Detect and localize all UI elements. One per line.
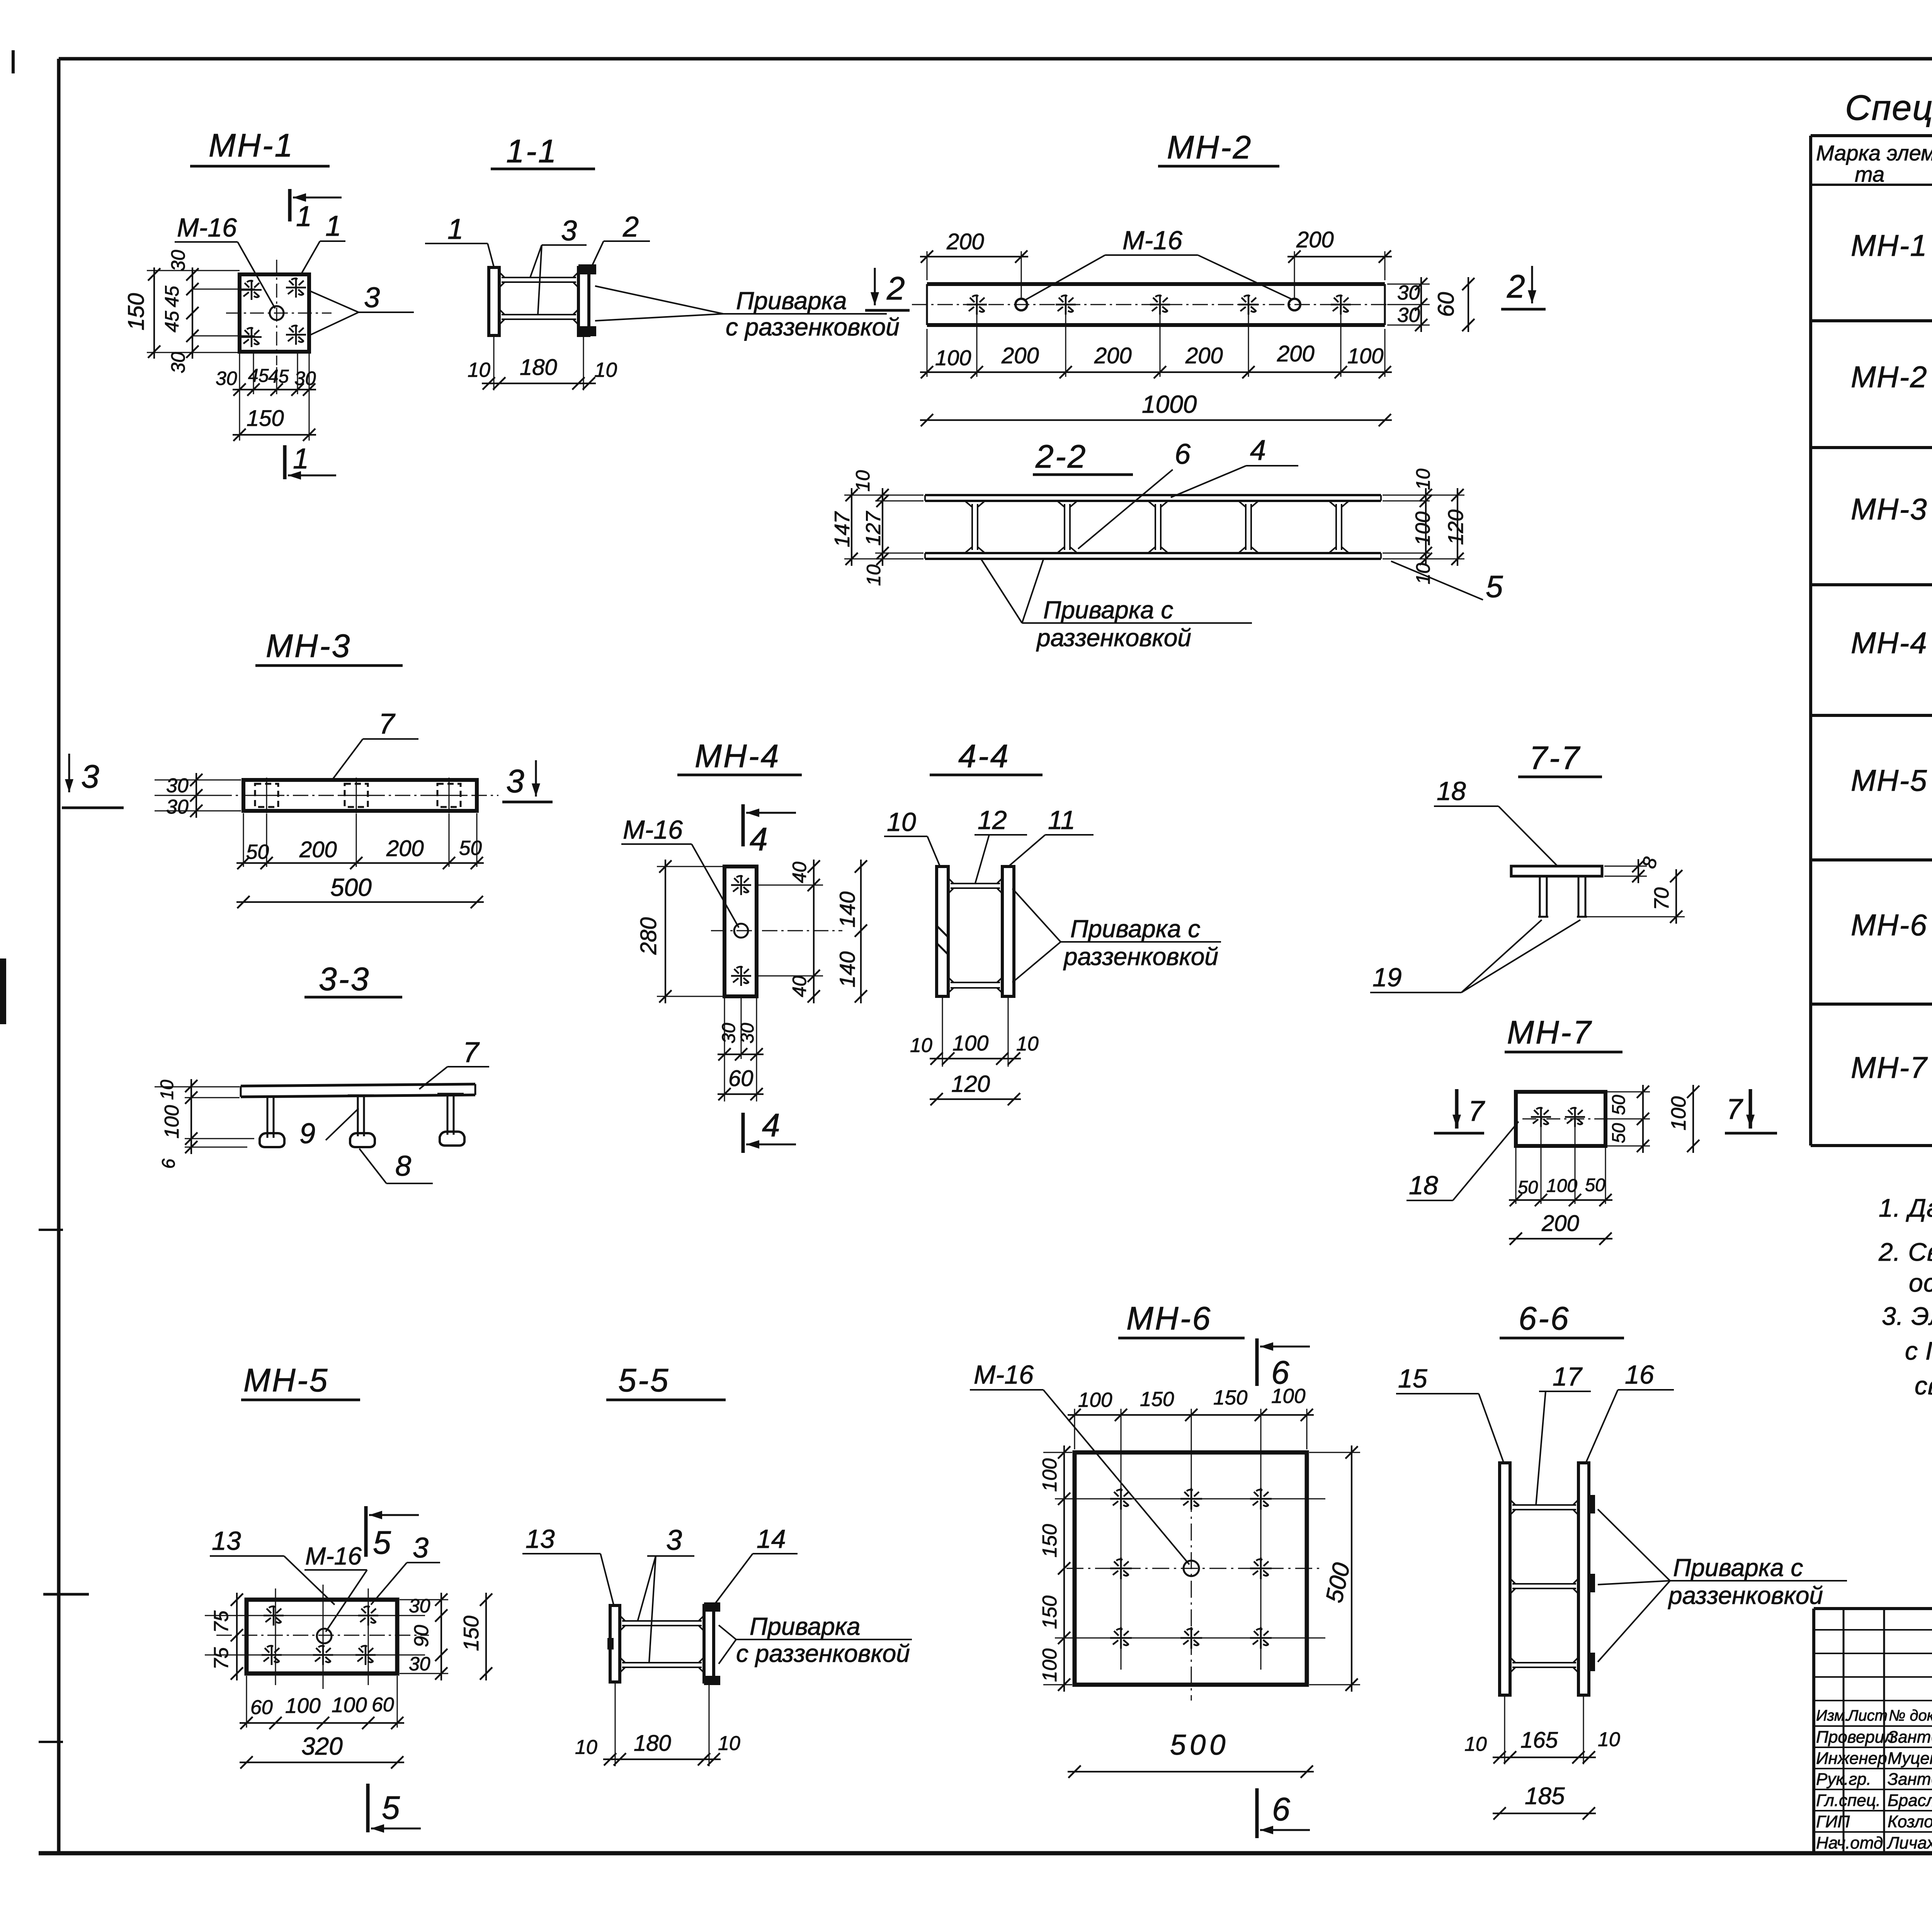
svg-text:10: 10 bbox=[863, 564, 884, 586]
plate pos.13 МН-5 plan 320x150 bbox=[247, 1600, 397, 1673]
svg-text:150: 150 bbox=[1039, 1524, 1061, 1558]
svg-text:4: 4 bbox=[1250, 434, 1266, 466]
svg-text:60: 60 bbox=[372, 1694, 394, 1716]
label Приварка с раззенковкой 2-2 bbox=[981, 560, 1252, 652]
svg-text:5-5: 5-5 bbox=[618, 1362, 670, 1398]
svg-text:30: 30 bbox=[166, 775, 189, 797]
svg-text:30: 30 bbox=[167, 250, 189, 271]
dimension 30 45 45 30 left МН-1 bbox=[161, 250, 199, 373]
svg-text:10: 10 bbox=[575, 1736, 597, 1759]
svg-text:МН-3: МН-3 bbox=[1851, 492, 1928, 526]
label Приварка с раззенковкой 5-5 bbox=[719, 1612, 912, 1667]
svg-text:150: 150 bbox=[459, 1616, 483, 1651]
studs pos.9 3-3 bbox=[257, 1094, 464, 1138]
svg-text:18: 18 bbox=[1409, 1171, 1438, 1200]
dimension 100 150 150 100 top МН-6 bbox=[1068, 1385, 1314, 1488]
svg-text:1. Данный лист комплектен: 1. Данный лист комплектен с листами КЖ-2… bbox=[1879, 1193, 1932, 1222]
svg-text:100: 100 bbox=[1078, 1389, 1112, 1411]
hole М16 МН-6 bbox=[1184, 1561, 1199, 1576]
leader 13 МН-5 bbox=[210, 1526, 335, 1605]
weld nubs 6-6 bbox=[1589, 1495, 1595, 1671]
svg-text:4: 4 bbox=[750, 821, 768, 857]
svg-text:10: 10 bbox=[1464, 1733, 1487, 1755]
svg-text:13: 13 bbox=[212, 1526, 241, 1556]
centerline МН-2 bbox=[912, 304, 1406, 305]
plate pos.15 МН-6 plan 500x500 bbox=[1075, 1452, 1307, 1685]
svg-text:10: 10 bbox=[852, 470, 874, 492]
svg-text:МН-4: МН-4 bbox=[695, 738, 780, 774]
svg-text:3: 3 bbox=[666, 1524, 682, 1556]
svg-text:100: 100 bbox=[285, 1694, 321, 1718]
weld nubs 5-5 bbox=[607, 1602, 720, 1685]
section title 7-7 bbox=[1518, 740, 1602, 777]
dimension 140 140 right МН-4 bbox=[835, 860, 867, 1003]
svg-text:200: 200 bbox=[1277, 341, 1315, 366]
svg-text:320: 320 bbox=[301, 1732, 343, 1760]
svg-text:1: 1 bbox=[296, 200, 312, 232]
svg-text:10: 10 bbox=[468, 359, 490, 381]
svg-text:100: 100 bbox=[161, 1105, 183, 1139]
leader 7 3-3 bbox=[419, 1036, 489, 1089]
studs pos.6 2-2 bbox=[963, 501, 1350, 553]
svg-text:1: 1 bbox=[293, 443, 309, 475]
plate pos.10 side 4-4 bbox=[937, 867, 948, 996]
weld marks МН-2 bbox=[967, 295, 1351, 315]
section mark 6 bottom МН-6 bbox=[1257, 1788, 1310, 1838]
section mark 2 right bbox=[1501, 266, 1546, 309]
svg-text:4-4: 4-4 bbox=[958, 738, 1010, 774]
svg-text:70: 70 bbox=[1650, 887, 1673, 910]
svg-text:50: 50 bbox=[1518, 1177, 1538, 1197]
dimension 30 30 left МН-3 bbox=[155, 773, 241, 818]
svg-text:100: 100 bbox=[1271, 1385, 1306, 1408]
svg-text:с раззенковкой: с раззенковкой bbox=[726, 313, 900, 341]
svg-text:10: 10 bbox=[910, 1034, 932, 1057]
svg-text:5: 5 bbox=[373, 1524, 391, 1561]
svg-text:Козловская: Козловская bbox=[1888, 1812, 1932, 1831]
svg-text:30: 30 bbox=[737, 1023, 758, 1044]
dimension 200 МН-7 bbox=[1509, 1211, 1612, 1245]
section mark 7 right МН-7 bbox=[1725, 1089, 1777, 1133]
leader 4 2-2 bbox=[1171, 434, 1298, 497]
hole М16 МН-5 bbox=[317, 1629, 332, 1643]
svg-text:50: 50 bbox=[1608, 1123, 1629, 1143]
detail title МН-1 bbox=[190, 127, 330, 166]
svg-text:12: 12 bbox=[978, 805, 1007, 835]
svg-text:МН-7: МН-7 bbox=[1851, 1050, 1928, 1084]
svg-text:30: 30 bbox=[216, 368, 237, 389]
svg-text:6: 6 bbox=[1272, 1791, 1290, 1827]
weld marks МН-4 bbox=[731, 875, 751, 986]
svg-text:с раззенковкой: с раззенковкой bbox=[736, 1639, 910, 1667]
section title 2-2 bbox=[1033, 438, 1133, 475]
svg-text:остальных стержней электро: остальных стержней электродами Э-50А. bbox=[1909, 1268, 1932, 1297]
svg-text:Личахчи: Личахчи bbox=[1886, 1833, 1932, 1852]
leader 14 5-5 bbox=[715, 1524, 798, 1604]
svg-text:Приварка с: Приварка с bbox=[1673, 1554, 1803, 1582]
label Приварка с раззенковкой 1-1 bbox=[595, 286, 900, 341]
svg-text:100: 100 bbox=[1546, 1176, 1577, 1196]
svg-text:165: 165 bbox=[1520, 1728, 1558, 1753]
plate МН-2 plan 1000x60 bbox=[927, 284, 1385, 325]
svg-text:Проверил: Проверил bbox=[1816, 1728, 1894, 1747]
leader 15 6-6 bbox=[1396, 1364, 1503, 1462]
anchor squares МН-3 bbox=[249, 778, 467, 813]
section title 3-3 bbox=[304, 961, 402, 997]
dimension 500 МН-3 bbox=[236, 873, 484, 908]
rod pos.3 top 1-1 bbox=[502, 277, 576, 278]
detail title МН-7 bbox=[1505, 1014, 1622, 1052]
section mark 1 top bbox=[290, 189, 342, 232]
svg-text:Рук.гр.: Рук.гр. bbox=[1816, 1770, 1871, 1789]
weld marks МН-6 3x3 bbox=[1110, 1488, 1272, 1649]
leader 19 7-7 bbox=[1370, 920, 1580, 993]
svg-text:50: 50 bbox=[246, 841, 269, 863]
svg-text:500: 500 bbox=[330, 873, 372, 901]
svg-text:МН-1: МН-1 bbox=[209, 127, 294, 163]
svg-text:45: 45 bbox=[161, 311, 183, 332]
leader 17 6-6 bbox=[1536, 1362, 1591, 1505]
bottom plate pos.5 2-2 bbox=[925, 553, 1381, 559]
dimension 70 right 7-7 bbox=[1587, 869, 1685, 924]
svg-text:9: 9 bbox=[299, 1117, 315, 1149]
dimension 200 top-left МН-2 bbox=[920, 229, 1028, 298]
dimension 75 75 left МН-5 bbox=[210, 1593, 243, 1680]
svg-text:1-1: 1-1 bbox=[506, 133, 558, 169]
dimension 120 4-4 bbox=[930, 1071, 1021, 1105]
dimension 60 bottom МН-4 bbox=[718, 1066, 764, 1100]
studs pos.19 7-7 bbox=[1538, 876, 1587, 917]
label М-16 with leader bbox=[175, 213, 275, 308]
leader 13 5-5 bbox=[522, 1524, 614, 1605]
detail title МН-5 bbox=[241, 1362, 360, 1400]
dimension 500 bottom МН-6 bbox=[1068, 1729, 1314, 1778]
svg-text:Гл.спец.: Гл.спец. bbox=[1816, 1791, 1881, 1810]
svg-text:200: 200 bbox=[1001, 343, 1039, 368]
title block names bbox=[1816, 1728, 1932, 1852]
svg-text:15: 15 bbox=[1398, 1364, 1427, 1393]
svg-text:60: 60 bbox=[1434, 292, 1459, 317]
title block left rows bbox=[1814, 1630, 1932, 1832]
svg-text:19: 19 bbox=[1372, 963, 1402, 992]
svg-text:40: 40 bbox=[789, 861, 810, 883]
dimension 150 right МН-5 bbox=[459, 1593, 492, 1680]
leader 1 1-1 bbox=[425, 213, 494, 267]
svg-text:18: 18 bbox=[1437, 776, 1466, 806]
leader 3 1-1 bbox=[530, 215, 587, 315]
svg-text:10: 10 bbox=[594, 359, 617, 381]
svg-text:3: 3 bbox=[413, 1532, 429, 1564]
section mark 3 left bbox=[62, 754, 124, 808]
svg-text:45: 45 bbox=[268, 366, 289, 387]
dimension 280 left МН-4 bbox=[636, 860, 723, 1003]
svg-text:раззенковкой: раззенковкой bbox=[1036, 624, 1191, 652]
svg-text:3: 3 bbox=[364, 281, 380, 313]
svg-text:100: 100 bbox=[1667, 1096, 1690, 1130]
leader 18 7-7 bbox=[1434, 776, 1557, 866]
svg-text:Браславский: Браславский bbox=[1888, 1791, 1932, 1810]
svg-text:М-16: М-16 bbox=[974, 1360, 1034, 1389]
plate pos.1 side 1-1 bbox=[489, 267, 499, 335]
dimension 8 right 7-7 bbox=[1604, 855, 1662, 883]
svg-text:8: 8 bbox=[395, 1150, 411, 1182]
svg-text:200: 200 bbox=[1094, 343, 1132, 368]
svg-text:МН-5: МН-5 bbox=[1851, 763, 1928, 797]
svg-text:200: 200 bbox=[946, 229, 984, 254]
svg-text:280: 280 bbox=[636, 917, 661, 955]
dimensions 10 100 6 left 3-3 bbox=[155, 1079, 254, 1169]
svg-text:сварные для железобетонных: сварные для железобетонных конструкций.” bbox=[1915, 1371, 1932, 1400]
svg-text:60: 60 bbox=[728, 1066, 753, 1091]
dimension 50 50 right МН-7 bbox=[1607, 1085, 1650, 1153]
label Приварка с раззенковкой 6-6 bbox=[1598, 1509, 1847, 1662]
dimension 60 right МН-2 bbox=[1434, 277, 1475, 332]
svg-text:40: 40 bbox=[789, 975, 810, 997]
svg-text:1000: 1000 bbox=[1142, 390, 1197, 418]
rod pos.12 bottom 4-4 bbox=[951, 982, 1000, 983]
leader 3 5-5 bbox=[638, 1524, 694, 1662]
plate pos.10 МН-4 plan 60x280 bbox=[724, 867, 757, 996]
weld nubs pos.2 bbox=[578, 264, 596, 274]
dimension 10 180 10 5-5 bbox=[575, 1682, 740, 1766]
svg-text:147: 147 bbox=[830, 511, 854, 547]
centerline МН-4 bbox=[711, 930, 842, 931]
svg-text:30: 30 bbox=[409, 1595, 430, 1617]
label М-16 МН-6 bbox=[970, 1360, 1189, 1565]
plate pos.13 side 5-5 bbox=[610, 1605, 620, 1682]
svg-text:М-16: М-16 bbox=[177, 213, 237, 242]
svg-text:75: 75 bbox=[210, 1610, 233, 1633]
spec table data bbox=[1851, 189, 1932, 1084]
svg-text:10: 10 bbox=[156, 1080, 177, 1100]
svg-text:50: 50 bbox=[1585, 1175, 1605, 1195]
rod pos.17 middle 6-6 bbox=[1512, 1583, 1576, 1585]
svg-text:90: 90 bbox=[410, 1625, 433, 1647]
svg-text:7-7: 7-7 bbox=[1529, 740, 1581, 776]
leader 7 МН-3 bbox=[332, 708, 418, 781]
notes text bbox=[1878, 1193, 1932, 1400]
centerlines МН-6 bbox=[1055, 1438, 1325, 1701]
svg-text:11: 11 bbox=[1048, 805, 1075, 835]
dimension 320 МН-5 bbox=[240, 1732, 404, 1769]
svg-text:100: 100 bbox=[1039, 1648, 1061, 1682]
dimension 10 165 10 6-6 bbox=[1464, 1695, 1620, 1764]
dimension 30 30 right МН-2 bbox=[1387, 277, 1430, 332]
svg-text:МН-7: МН-7 bbox=[1507, 1014, 1592, 1050]
detail title МН-3 bbox=[255, 628, 403, 666]
dimension 50 200 200 50 МН-3 bbox=[236, 813, 484, 869]
svg-text:150: 150 bbox=[124, 293, 149, 330]
svg-text:Приварка: Приварка bbox=[750, 1612, 861, 1640]
svg-text:10: 10 bbox=[1016, 1033, 1039, 1055]
svg-text:3. Электродуговая сварка вып: 3. Электродуговая сварка выполняется в с… bbox=[1882, 1302, 1932, 1330]
plate pos.1 МН-1 plan 150x150 bbox=[240, 274, 309, 352]
section mark 2 left bbox=[865, 268, 910, 310]
svg-text:7: 7 bbox=[1468, 1095, 1485, 1127]
centerline МН-3 bbox=[216, 795, 498, 796]
section title 6-6 bbox=[1500, 1300, 1624, 1338]
dimension 200 top-right МН-2 bbox=[1287, 227, 1392, 298]
plate pos.16 side 6-6 bbox=[1578, 1463, 1589, 1695]
svg-text:с ГОСТ 10922-75„ Арматура и: с ГОСТ 10922-75„ Арматура и закладные де… bbox=[1905, 1336, 1932, 1365]
svg-text:Зантберг: Зантберг bbox=[1888, 1770, 1932, 1789]
dimension 1000 МН-2 bbox=[920, 390, 1392, 426]
svg-text:127: 127 bbox=[862, 511, 885, 546]
svg-text:30: 30 bbox=[166, 796, 189, 818]
section mark 5 bottom МН-5 bbox=[368, 1784, 421, 1833]
plate pos.15 side 6-6 bbox=[1500, 1463, 1510, 1695]
rod pos.17 bottom 6-6 bbox=[1512, 1662, 1576, 1663]
dimension 500 right МН-6 bbox=[1309, 1445, 1360, 1692]
svg-text:Лист: Лист bbox=[1847, 1707, 1888, 1724]
svg-text:10: 10 bbox=[887, 807, 916, 837]
dimension 100 150 150 100 left МН-6 bbox=[1039, 1445, 1072, 1692]
leader 11 4-4 bbox=[1009, 805, 1094, 866]
svg-text:5: 5 bbox=[1486, 569, 1503, 604]
svg-text:7: 7 bbox=[379, 708, 396, 740]
svg-text:75: 75 bbox=[210, 1647, 233, 1670]
rod pos.3 top 5-5 bbox=[622, 1620, 702, 1622]
label Приварка с раззенковкой 4-4 bbox=[1012, 889, 1221, 982]
svg-text:3: 3 bbox=[561, 215, 577, 247]
svg-text:10: 10 bbox=[1412, 563, 1434, 584]
svg-text:3: 3 bbox=[506, 763, 524, 799]
dimension 10 180 10 1-1 bbox=[468, 337, 617, 390]
svg-text:150: 150 bbox=[247, 406, 284, 431]
spec table header text bbox=[1816, 136, 1932, 186]
svg-text:10: 10 bbox=[718, 1732, 740, 1755]
svg-text:Изм.: Изм. bbox=[1816, 1707, 1849, 1724]
svg-text:150: 150 bbox=[1213, 1386, 1248, 1409]
svg-text:ГИП: ГИП bbox=[1816, 1812, 1850, 1831]
svg-text:30: 30 bbox=[719, 1023, 739, 1044]
section mark 5 top МН-5 bbox=[366, 1506, 419, 1561]
rod pos.3 bottom 5-5 bbox=[622, 1662, 702, 1663]
svg-text:Муценко: Муценко bbox=[1888, 1749, 1932, 1768]
anchor hole M-16 МН-1 bbox=[270, 306, 284, 320]
svg-text:4: 4 bbox=[762, 1107, 780, 1143]
dimension 30 45 45 30 bottom МН-1 bbox=[216, 354, 316, 396]
svg-text:Зантберг: Зантберг bbox=[1888, 1728, 1932, 1747]
plate pos.2 side 1-1 bbox=[578, 267, 589, 335]
section title 4-4 bbox=[930, 738, 1043, 775]
svg-text:100: 100 bbox=[1347, 344, 1383, 368]
dimension 10 100 120 10 5 right 2-2 bbox=[1383, 468, 1503, 604]
dimension 185 6-6 bbox=[1493, 1783, 1596, 1820]
svg-text:50: 50 bbox=[459, 837, 482, 860]
leader 2 1-1 bbox=[592, 211, 650, 266]
svg-text:Нач.отд: Нач.отд bbox=[1816, 1833, 1883, 1852]
svg-text:МН-2: МН-2 bbox=[1851, 360, 1928, 394]
svg-text:140: 140 bbox=[835, 952, 859, 987]
section mark 1 bottom bbox=[285, 443, 336, 480]
leader 10 4-4 bbox=[884, 807, 940, 866]
dimension 10 100 10 4-4 bbox=[910, 998, 1039, 1067]
leader 6 2-2 bbox=[1078, 438, 1191, 549]
svg-text:7: 7 bbox=[463, 1036, 480, 1068]
rod pos.3 bottom 1-1 bbox=[502, 314, 576, 315]
centerlines МН-1 bbox=[193, 260, 332, 365]
svg-text:Марка элемен-: Марка элемен- bbox=[1816, 141, 1932, 165]
dimension 10 147 127 10 left 2-2 bbox=[830, 470, 923, 586]
svg-text:МН-6: МН-6 bbox=[1851, 908, 1928, 942]
svg-text:МН-6: МН-6 bbox=[1126, 1300, 1212, 1336]
svg-text:1: 1 bbox=[325, 210, 341, 242]
svg-text:120: 120 bbox=[951, 1071, 990, 1097]
section title 1-1 bbox=[491, 133, 595, 169]
section title 5-5 bbox=[606, 1362, 726, 1400]
svg-text:2: 2 bbox=[1507, 268, 1525, 305]
dimension 150 bottom МН-1 bbox=[233, 392, 316, 441]
dimension 60 100 100 60 МН-5 bbox=[240, 1676, 404, 1729]
detail title МН-4 bbox=[677, 738, 802, 775]
leader 1 to plate bbox=[301, 210, 345, 274]
svg-text:2. Сварку стержней встык пр: 2. Сварку стержней встык производить под… bbox=[1878, 1238, 1932, 1266]
svg-text:2: 2 bbox=[622, 211, 639, 243]
svg-text:100: 100 bbox=[935, 346, 971, 370]
leader 3 МН-5 bbox=[371, 1532, 440, 1605]
svg-text:180: 180 bbox=[634, 1731, 671, 1756]
dimension 30 30 bottom МН-4 bbox=[718, 998, 764, 1101]
section mark 3 right bbox=[502, 760, 553, 802]
svg-text:10: 10 bbox=[1598, 1728, 1620, 1751]
svg-text:М-16: М-16 bbox=[305, 1542, 362, 1570]
title block frame bbox=[1814, 1609, 1932, 1853]
plate pos.7 МН-3 plan 500x60 bbox=[243, 780, 477, 811]
svg-text:100: 100 bbox=[1412, 511, 1434, 546]
svg-text:Спецификация металла на одн: Спецификация металла на одну марку bbox=[1845, 88, 1932, 128]
svg-text:200: 200 bbox=[1541, 1211, 1579, 1236]
detail title МН-2 bbox=[1158, 129, 1279, 166]
bolt holes М-16 МН-2 bbox=[1015, 299, 1300, 310]
svg-text:3: 3 bbox=[81, 758, 99, 795]
svg-text:раззенковкой: раззенковкой bbox=[1063, 943, 1218, 970]
svg-text:М-16: М-16 bbox=[1122, 226, 1182, 255]
label М-16 МН-5 bbox=[304, 1542, 367, 1632]
svg-text:500: 500 bbox=[1170, 1729, 1229, 1761]
plate pos.7 side 3-3 bbox=[241, 1084, 475, 1097]
plate pos.11 side 4-4 bbox=[1002, 867, 1014, 996]
svg-text:60: 60 bbox=[250, 1696, 273, 1719]
leader 12 4-4 bbox=[975, 805, 1027, 883]
plate pos.18 side 7-7 bbox=[1511, 866, 1602, 876]
svg-text:100: 100 bbox=[952, 1031, 988, 1055]
svg-text:М-16: М-16 bbox=[623, 815, 683, 844]
hole М16 МН-4 bbox=[734, 924, 748, 938]
svg-text:2-2: 2-2 bbox=[1035, 438, 1087, 475]
svg-text:6: 6 bbox=[158, 1158, 179, 1169]
svg-text:200: 200 bbox=[1185, 343, 1223, 368]
svg-text:50: 50 bbox=[1608, 1095, 1629, 1115]
svg-text:200: 200 bbox=[1296, 227, 1334, 252]
svg-text:Приварка: Приварка bbox=[736, 287, 847, 315]
countersink marks on pos.10 bbox=[937, 926, 948, 955]
rod pos.17 top 6-6 bbox=[1512, 1504, 1576, 1506]
label М-16 МН-4 bbox=[621, 815, 739, 928]
spec table grid bbox=[1811, 136, 1932, 1146]
svg-text:30: 30 bbox=[1397, 281, 1420, 304]
rod pos.12 top 4-4 bbox=[951, 883, 1000, 884]
svg-text:150: 150 bbox=[1039, 1595, 1061, 1629]
svg-text:Приварка с: Приварка с bbox=[1043, 596, 1173, 624]
svg-text:180: 180 bbox=[520, 355, 557, 380]
svg-text:16: 16 bbox=[1625, 1360, 1654, 1389]
leader 18 МН-7 bbox=[1406, 1122, 1519, 1200]
svg-text:45: 45 bbox=[161, 286, 183, 307]
centerlines МН-5 bbox=[205, 1585, 429, 1689]
svg-text:6: 6 bbox=[1175, 438, 1191, 470]
dimension 50 100 50 bottom МН-7 bbox=[1509, 1127, 1612, 1206]
